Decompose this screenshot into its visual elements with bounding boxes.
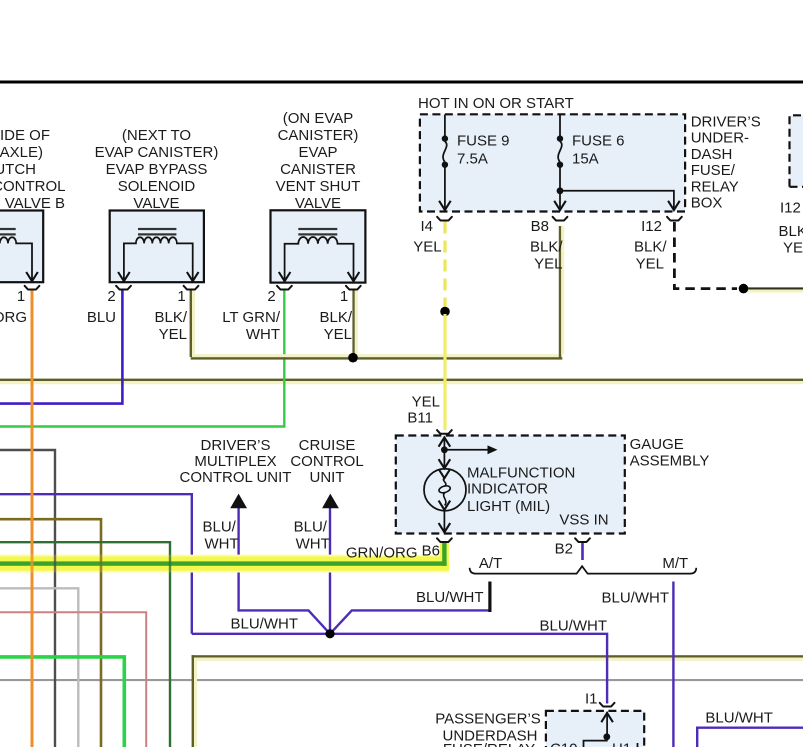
wire BLU/WHT from left edge (0, 494, 192, 634)
svg-text:B6: B6 (422, 543, 440, 560)
svg-text:B8: B8 (531, 218, 549, 235)
svg-text:FUSE/: FUSE/ (691, 162, 736, 179)
wire BLU/WHT network to junction (192, 508, 803, 747)
svg-text:PASSENGER’S: PASSENGER’S (435, 711, 541, 728)
driver's multiplex arrow (230, 494, 247, 509)
label right box I12 BLK/YEL (779, 200, 803, 257)
wire pink from left edge (0, 612, 146, 747)
junction BLU/WHT (325, 629, 334, 638)
junction BLK/YEL bus (348, 353, 358, 363)
svg-text:YEL: YEL (783, 240, 803, 257)
wire fuse6 to I12 (557, 187, 680, 210)
svg-text:WHT: WHT (205, 536, 239, 553)
label BLU/WHT multiplex (203, 519, 239, 553)
pin B8 bracket (553, 217, 568, 221)
svg-text:LT GRN/: LT GRN/ (222, 309, 281, 326)
svg-text:B11: B11 (407, 410, 433, 427)
svg-text:CANISTER): CANISTER) (278, 127, 359, 144)
pin 1 bracket valve B (25, 286, 40, 290)
label bypass solenoid valve (95, 127, 219, 212)
svg-text:CONTROL: CONTROL (290, 453, 363, 470)
svg-text:ORG: ORG (0, 309, 27, 326)
label B6 GRN/ORG (346, 543, 440, 562)
svg-text:EVAP CANISTER): EVAP CANISTER) (95, 144, 219, 161)
wire thick green from left edge (0, 657, 124, 747)
wire YEL solid to B11 (443, 314, 446, 430)
svg-text:DASH: DASH (691, 146, 733, 163)
svg-text:UNIT: UNIT (310, 469, 345, 486)
svg-text:BLU: BLU (87, 309, 116, 326)
svg-text:RELAY: RELAY (691, 178, 739, 195)
label vent shut valve (276, 110, 361, 212)
pin 2 bracket vent (277, 286, 292, 290)
wire YEL dashed I4 down (443, 222, 446, 310)
svg-text:WHT: WHT (296, 536, 330, 553)
svg-text:C10: C10 (550, 741, 578, 747)
svg-text:EVAP: EVAP (299, 144, 338, 161)
svg-text:BLU/WHT: BLU/WHT (540, 618, 608, 635)
svg-text:DRIVER’S: DRIVER’S (691, 114, 761, 131)
pin B11 bracket (437, 430, 452, 434)
svg-text:UTCH: UTCH (0, 161, 36, 178)
svg-text:D VALVE B: D VALVE B (0, 195, 65, 212)
relay box right partial (790, 115, 803, 187)
wire dark green over band (169, 554, 171, 573)
svg-text:YEL: YEL (636, 256, 664, 273)
wire dark green from left edge (0, 542, 170, 747)
svg-text:BLK/: BLK/ (634, 239, 667, 256)
svg-text:2: 2 (107, 288, 115, 305)
svg-text:AXLE): AXLE) (0, 144, 43, 161)
svg-text:ASSEMBLY: ASSEMBLY (630, 452, 710, 469)
label driver's under-dash fuse/relay box (691, 114, 761, 212)
label valve B (0, 127, 66, 212)
svg-text:YEL: YEL (412, 394, 440, 411)
pin B6 bracket (437, 538, 452, 542)
solenoid valve B box (partial, left edge) (0, 211, 43, 283)
wire GRN/ORG thick band (0, 543, 449, 573)
label YEL B11 (407, 394, 440, 427)
svg-text:CRUISE: CRUISE (299, 437, 356, 454)
top border rule (0, 81, 803, 84)
svg-text:A/T: A/T (479, 555, 502, 572)
wire full-width GRY y=680 (0, 679, 803, 681)
svg-text:I4: I4 (420, 218, 433, 235)
svg-text:FUSE 6: FUSE 6 (572, 133, 625, 150)
svg-text:I12: I12 (780, 200, 801, 217)
svg-text:UNDER-: UNDER- (691, 130, 749, 147)
svg-text:BLK/: BLK/ (530, 239, 563, 256)
pin 1 bracket bypass (184, 286, 199, 290)
label fuse 9 (457, 133, 510, 168)
pin 1 bracket vent (346, 286, 361, 290)
svg-text:YEL: YEL (159, 326, 187, 343)
pin I12 bracket (667, 217, 682, 221)
wire brown over band (100, 554, 103, 573)
svg-text:BLU/: BLU/ (203, 519, 237, 536)
pin 2 bracket bypass (116, 286, 131, 290)
svg-text:GRN/ORG: GRN/ORG (346, 545, 418, 562)
label B8 BLK/YEL (530, 218, 563, 273)
svg-text:FUSE/RELAY: FUSE/RELAY (443, 741, 535, 747)
svg-text:SOLENOID: SOLENOID (118, 178, 196, 195)
wire BLK/YEL right edge (748, 287, 803, 292)
wire A/T stub black (488, 582, 491, 613)
wire ORG vertical (31, 290, 34, 747)
svg-text:BLU/WHT: BLU/WHT (705, 710, 773, 727)
svg-text:1: 1 (340, 288, 348, 305)
svg-text:FUSE 9: FUSE 9 (457, 133, 510, 150)
wire brown from left edge (0, 519, 101, 747)
wire BLK/YEL dashed from I12 (674, 222, 737, 289)
svg-text:2: 2 (267, 288, 275, 305)
svg-text:INDICATOR: INDICATOR (467, 481, 548, 498)
wire BLU horizontal to left edge (0, 290, 122, 404)
fuse F9 7.5A (439, 115, 451, 211)
wire dark gray from left edge (0, 450, 55, 747)
svg-text:MULTIPLEX: MULTIPLEX (194, 453, 276, 470)
wire full-width BLK/YEL bus y=379 (0, 379, 803, 385)
svg-text:(NEXT TO: (NEXT TO (122, 127, 191, 144)
label I12 BLK/YEL (634, 218, 667, 273)
svg-text:WHT: WHT (246, 326, 280, 343)
svg-text:I12: I12 (641, 218, 662, 235)
svg-text:SIDE OF: SIDE OF (0, 127, 50, 144)
svg-text:BLU/WHT: BLU/WHT (416, 589, 484, 606)
passenger box internal wire (584, 712, 638, 747)
A/T M/T brace (470, 566, 697, 573)
svg-text:CANISTER: CANISTER (280, 161, 356, 178)
svg-text:(ON EVAP: (ON EVAP (283, 110, 354, 127)
svg-text:15A: 15A (572, 151, 599, 168)
svg-text:HOT IN ON OR START: HOT IN ON OR START (418, 95, 574, 112)
pin numbers (17, 288, 348, 305)
EVAP bypass solenoid valve box (110, 211, 204, 283)
svg-text:I1: I1 (585, 691, 598, 708)
svg-text:BLK/: BLK/ (779, 223, 803, 240)
svg-text:YEL: YEL (413, 239, 441, 256)
svg-text:VSS IN: VSS IN (559, 512, 608, 529)
label I4 YEL (413, 218, 441, 256)
svg-text:YEL: YEL (324, 326, 352, 343)
svg-text:BLU/WHT: BLU/WHT (602, 590, 670, 607)
svg-text:VALVE: VALVE (295, 195, 341, 212)
svg-text:CONTROL: CONTROL (0, 178, 66, 195)
passenger's underdash fuse/relay box (546, 711, 644, 747)
wire dark gray over band (54, 554, 56, 573)
fuse F6 15A (554, 115, 566, 211)
wire ORG over band (31, 554, 34, 573)
svg-text:B2: B2 (555, 541, 573, 558)
svg-text:1: 1 (177, 288, 185, 305)
svg-text:EVAP BYPASS: EVAP BYPASS (106, 161, 208, 178)
svg-text:1: 1 (17, 288, 25, 305)
svg-text:BLK/: BLK/ (154, 309, 187, 326)
svg-text:CONTROL UNIT: CONTROL UNIT (180, 469, 292, 486)
svg-text:LIGHT (MIL): LIGHT (MIL) (467, 498, 550, 515)
wire color labels (0, 309, 353, 343)
wire B2 stub (581, 543, 584, 561)
label BLU/WHT cruise (294, 519, 330, 553)
svg-text:BLU/: BLU/ (294, 519, 328, 536)
wire full-width BLK/YEL y=656 (192, 655, 803, 747)
svg-text:MALFUNCTION: MALFUNCTION (467, 465, 575, 482)
gauge assembly box (396, 436, 625, 534)
svg-text:M/T: M/T (662, 555, 688, 572)
pin B2 bracket (575, 538, 590, 542)
EVAP canister vent shut valve box (271, 210, 366, 282)
svg-text:H1: H1 (612, 741, 631, 747)
svg-text:7.5A: 7.5A (457, 151, 488, 168)
wire LT GRN/WHT horizontal to left edge (0, 290, 284, 427)
junction I12 (739, 284, 749, 294)
svg-text:DRIVER’S: DRIVER’S (200, 437, 270, 454)
svg-text:BLK/: BLK/ (319, 309, 352, 326)
svg-text:YEL: YEL (534, 256, 562, 273)
label MIL (467, 465, 575, 516)
junction YEL (440, 307, 450, 317)
label gauge assembly (630, 436, 710, 469)
label fuse 6 (572, 133, 625, 168)
pin I4 bracket (437, 217, 452, 221)
pin I1 bracket (600, 703, 615, 707)
label passenger's underdash fuse/relay box (435, 711, 541, 747)
wire light gray from left edge (0, 588, 78, 747)
svg-text:BOX: BOX (691, 195, 723, 212)
cruise control arrow (322, 494, 339, 509)
svg-text:GAUGE: GAUGE (630, 436, 684, 453)
driver's underdash fuse/relay box (420, 114, 685, 211)
label driver's multiplex control unit (180, 437, 292, 486)
svg-text:BLU/WHT: BLU/WHT (231, 616, 299, 633)
svg-text:VALVE: VALVE (133, 195, 179, 212)
MIL lamp (424, 437, 498, 533)
wire BLK/YEL bus solenoids to B8 (190, 226, 565, 360)
label cruise control unit (290, 437, 363, 486)
svg-text:VENT SHUT: VENT SHUT (276, 178, 361, 195)
